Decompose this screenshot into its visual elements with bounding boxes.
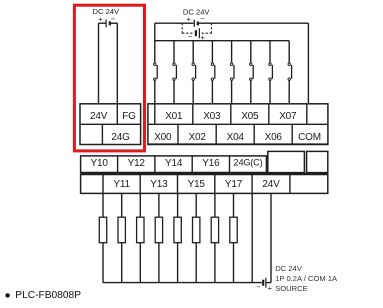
svg-text:X00: X00 (154, 132, 172, 143)
svg-text:Y12: Y12 (128, 158, 146, 169)
svg-text:1P 0.2A / COM 1A: 1P 0.2A / COM 1A (275, 274, 338, 283)
svg-text:Y14: Y14 (165, 158, 183, 169)
svg-text:24V: 24V (90, 111, 108, 122)
svg-text:X06: X06 (265, 132, 283, 143)
svg-text:24G(C): 24G(C) (234, 158, 263, 168)
svg-text:24G: 24G (111, 132, 130, 143)
svg-text:X01: X01 (165, 111, 183, 122)
svg-text:X03: X03 (203, 111, 221, 122)
svg-text:DC 24V: DC 24V (183, 8, 211, 17)
svg-text:X05: X05 (241, 111, 259, 122)
svg-text:SOURCE: SOURCE (275, 284, 308, 293)
svg-text:DC 24V: DC 24V (275, 264, 303, 273)
svg-text:Y16: Y16 (202, 158, 220, 169)
svg-text:FG: FG (122, 111, 136, 122)
svg-text:PLC-FB0808P: PLC-FB0808P (15, 290, 81, 301)
svg-text:COM: COM (298, 132, 321, 143)
svg-text:24V: 24V (262, 179, 280, 190)
svg-text:−: − (188, 32, 193, 41)
svg-text:Y10: Y10 (90, 158, 108, 169)
svg-text:X07: X07 (279, 111, 297, 122)
svg-text:−: − (256, 282, 261, 291)
svg-text:Y11: Y11 (113, 179, 130, 190)
svg-text:DC 24V: DC 24V (93, 7, 121, 16)
svg-text:Y15: Y15 (188, 179, 206, 190)
svg-text:X02: X02 (188, 132, 206, 143)
svg-text:+: + (268, 283, 273, 292)
svg-text:X04: X04 (227, 132, 245, 143)
svg-text:Y17: Y17 (225, 179, 243, 190)
svg-text:Y13: Y13 (150, 179, 168, 190)
